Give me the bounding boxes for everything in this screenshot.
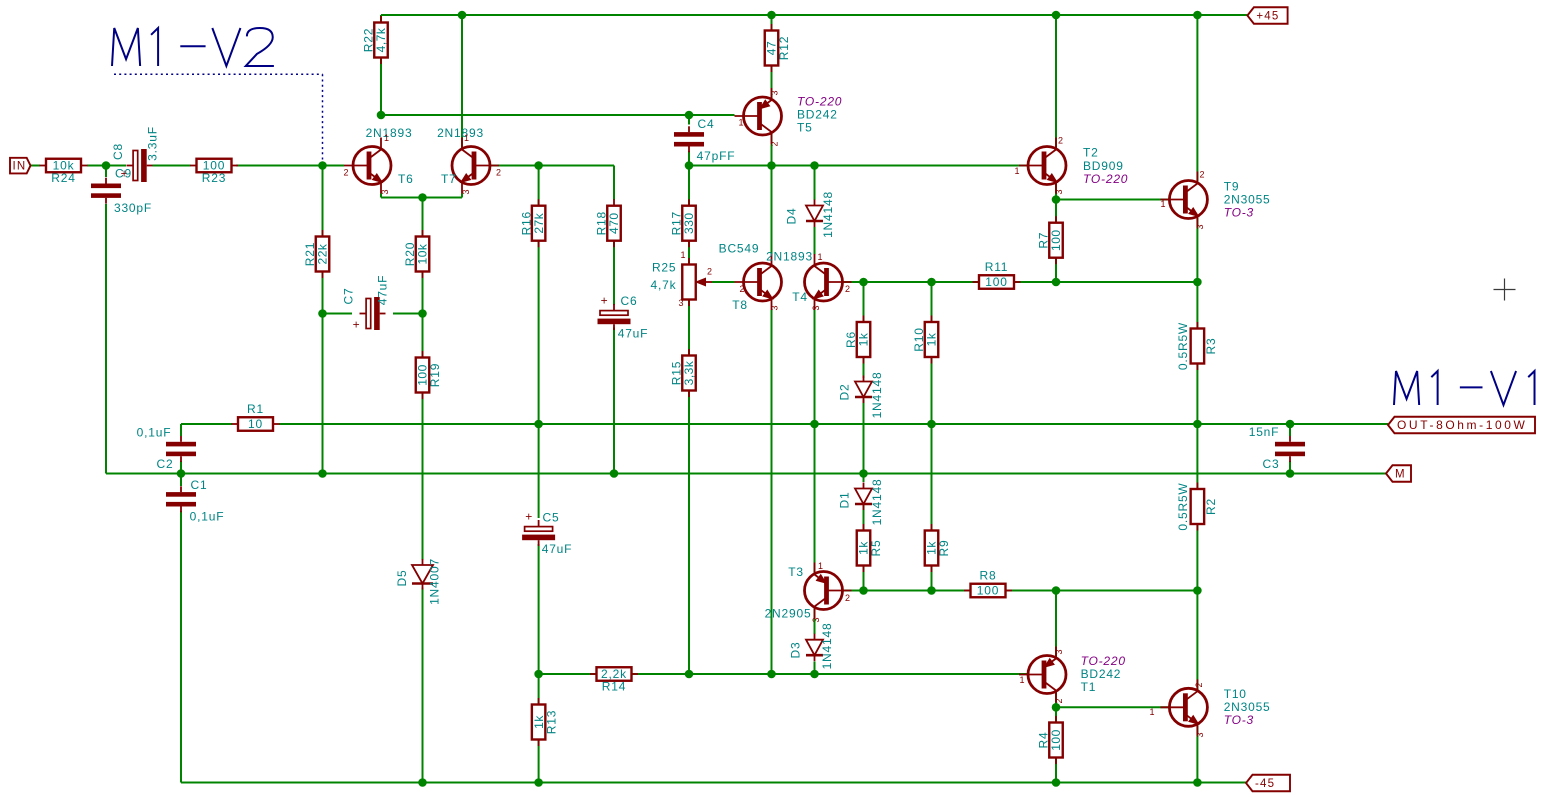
svg-text:1: 1 bbox=[738, 118, 743, 128]
svg-text:100: 100 bbox=[1049, 729, 1063, 751]
svg-text:3: 3 bbox=[380, 189, 390, 194]
svg-text:2: 2 bbox=[496, 168, 501, 178]
svg-text:BC549: BC549 bbox=[719, 242, 760, 256]
svg-text:+45: +45 bbox=[1256, 11, 1279, 23]
svg-text:0,1uF: 0,1uF bbox=[137, 426, 172, 440]
svg-text:22k: 22k bbox=[316, 243, 330, 264]
svg-text:47uF: 47uF bbox=[618, 327, 649, 341]
svg-text:C1: C1 bbox=[191, 478, 208, 492]
svg-text:R24: R24 bbox=[51, 171, 75, 185]
svg-text:R17: R17 bbox=[670, 211, 684, 235]
svg-text:47uF: 47uF bbox=[376, 275, 390, 306]
svg-text:0.5R5W: 0.5R5W bbox=[1176, 482, 1190, 530]
svg-text:2N2905: 2N2905 bbox=[765, 607, 812, 621]
svg-text:T5: T5 bbox=[797, 121, 813, 135]
svg-text:2: 2 bbox=[739, 284, 744, 294]
svg-text:+: + bbox=[353, 318, 361, 332]
svg-text:TO-220: TO-220 bbox=[797, 95, 842, 109]
svg-text:R25: R25 bbox=[652, 261, 676, 275]
svg-text:C8: C8 bbox=[111, 143, 125, 160]
svg-text:R10: R10 bbox=[912, 327, 926, 351]
svg-text:47uF: 47uF bbox=[542, 542, 573, 556]
svg-text:100: 100 bbox=[1049, 229, 1063, 251]
svg-text:BD242: BD242 bbox=[1081, 667, 1122, 681]
svg-text:4,7k: 4,7k bbox=[374, 27, 388, 52]
svg-text:TO-220: TO-220 bbox=[1081, 654, 1126, 668]
svg-text:T10: T10 bbox=[1224, 687, 1247, 701]
svg-text:C2: C2 bbox=[157, 457, 174, 471]
svg-text:C7: C7 bbox=[342, 288, 356, 305]
svg-text:1: 1 bbox=[464, 133, 469, 143]
svg-text:T7: T7 bbox=[441, 172, 457, 186]
svg-text:T4: T4 bbox=[792, 290, 808, 304]
svg-text:470: 470 bbox=[607, 212, 621, 234]
svg-text:R1: R1 bbox=[247, 402, 264, 416]
svg-text:2: 2 bbox=[1054, 698, 1064, 703]
svg-text:R14: R14 bbox=[602, 680, 626, 694]
svg-text:T2: T2 bbox=[1083, 146, 1099, 160]
svg-text:3,3k: 3,3k bbox=[682, 360, 696, 385]
svg-text:-45: -45 bbox=[1255, 778, 1275, 790]
svg-text:2: 2 bbox=[845, 284, 850, 294]
svg-text:1: 1 bbox=[384, 133, 389, 143]
svg-text:3: 3 bbox=[770, 305, 780, 310]
svg-text:R4: R4 bbox=[1037, 732, 1051, 749]
svg-text:1: 1 bbox=[1149, 707, 1154, 717]
svg-text:R18: R18 bbox=[595, 211, 609, 235]
svg-text:T9: T9 bbox=[1224, 180, 1240, 194]
svg-text:R20: R20 bbox=[403, 242, 417, 266]
svg-text:TO-3: TO-3 bbox=[1224, 713, 1254, 727]
svg-text:R15: R15 bbox=[670, 361, 684, 385]
svg-text:3: 3 bbox=[461, 189, 471, 194]
svg-text:1N4007: 1N4007 bbox=[428, 558, 442, 605]
svg-text:BD909: BD909 bbox=[1083, 159, 1124, 173]
svg-text:1N4148: 1N4148 bbox=[820, 623, 834, 670]
svg-text:R13: R13 bbox=[544, 710, 558, 734]
svg-text:R5: R5 bbox=[869, 540, 883, 557]
svg-text:T8: T8 bbox=[732, 298, 748, 312]
svg-text:C9: C9 bbox=[115, 167, 132, 181]
svg-text:2: 2 bbox=[845, 593, 850, 603]
svg-text:R22: R22 bbox=[362, 28, 376, 52]
svg-text:2: 2 bbox=[1199, 170, 1204, 180]
svg-text:1N4148: 1N4148 bbox=[821, 191, 835, 238]
svg-text:TO-3: TO-3 bbox=[1224, 206, 1254, 220]
svg-text:1: 1 bbox=[818, 561, 823, 571]
svg-text:3: 3 bbox=[1054, 189, 1064, 194]
svg-text:R6: R6 bbox=[844, 331, 858, 348]
svg-text:1: 1 bbox=[1014, 166, 1019, 176]
svg-text:R7: R7 bbox=[1037, 232, 1051, 249]
svg-text:2N1893: 2N1893 bbox=[766, 250, 813, 264]
svg-text:C3: C3 bbox=[1263, 457, 1280, 471]
svg-text:1N4148: 1N4148 bbox=[870, 372, 884, 419]
svg-text:27k: 27k bbox=[532, 212, 546, 233]
svg-text:OUT-8Ohm-100W: OUT-8Ohm-100W bbox=[1397, 418, 1528, 432]
svg-text:TO-220: TO-220 bbox=[1083, 172, 1128, 186]
svg-text:1k: 1k bbox=[925, 332, 939, 346]
svg-text:3.3uF: 3.3uF bbox=[146, 126, 160, 161]
svg-text:1: 1 bbox=[1019, 675, 1024, 685]
svg-text:T6: T6 bbox=[398, 172, 414, 186]
svg-text:+: + bbox=[601, 294, 609, 308]
svg-text:3: 3 bbox=[811, 305, 821, 310]
svg-text:100: 100 bbox=[977, 584, 999, 598]
svg-text:3: 3 bbox=[770, 90, 780, 95]
svg-text:2: 2 bbox=[707, 267, 712, 277]
svg-text:1k: 1k bbox=[857, 332, 871, 346]
svg-text:D1: D1 bbox=[838, 492, 852, 509]
svg-text:R16: R16 bbox=[519, 211, 533, 235]
svg-text:D3: D3 bbox=[789, 642, 803, 659]
svg-text:2N3055: 2N3055 bbox=[1224, 700, 1271, 714]
svg-text:R8: R8 bbox=[980, 569, 997, 583]
svg-text:330: 330 bbox=[682, 212, 696, 234]
svg-text:R3: R3 bbox=[1204, 338, 1218, 355]
svg-text:47pFF: 47pFF bbox=[697, 149, 736, 163]
svg-text:BD242: BD242 bbox=[797, 108, 838, 122]
svg-text:10k: 10k bbox=[416, 243, 430, 264]
svg-text:2: 2 bbox=[1194, 682, 1204, 687]
svg-text:C4: C4 bbox=[698, 117, 715, 131]
svg-text:3: 3 bbox=[678, 298, 683, 308]
svg-text:2: 2 bbox=[770, 141, 780, 146]
svg-text:M: M bbox=[1395, 469, 1406, 481]
svg-text:2N3055: 2N3055 bbox=[1224, 193, 1271, 207]
svg-text:1: 1 bbox=[817, 252, 822, 262]
svg-text:IN: IN bbox=[13, 161, 27, 173]
svg-text:10: 10 bbox=[248, 417, 263, 431]
svg-text:0,1uF: 0,1uF bbox=[190, 510, 225, 524]
svg-text:3: 3 bbox=[1054, 649, 1064, 654]
svg-text:R23: R23 bbox=[202, 171, 226, 185]
svg-text:2N1893: 2N1893 bbox=[437, 126, 484, 140]
svg-text:1: 1 bbox=[1160, 199, 1165, 209]
svg-text:15nF: 15nF bbox=[1249, 425, 1280, 439]
svg-text:R11: R11 bbox=[985, 260, 1009, 274]
svg-text:C5: C5 bbox=[543, 511, 560, 525]
svg-text:T1: T1 bbox=[1081, 680, 1097, 694]
svg-text:100: 100 bbox=[985, 275, 1007, 289]
svg-text:D5: D5 bbox=[395, 570, 409, 587]
svg-text:4,7k: 4,7k bbox=[651, 278, 677, 292]
svg-text:T3: T3 bbox=[788, 565, 804, 579]
svg-text:1N4148: 1N4148 bbox=[870, 479, 884, 526]
svg-text:2: 2 bbox=[1058, 136, 1063, 146]
svg-text:3: 3 bbox=[1195, 224, 1205, 229]
svg-text:R21: R21 bbox=[303, 242, 317, 266]
svg-text:R2: R2 bbox=[1204, 498, 1218, 515]
svg-text:D4: D4 bbox=[785, 208, 799, 225]
svg-text:3: 3 bbox=[1195, 732, 1205, 737]
svg-text:R9: R9 bbox=[937, 540, 951, 557]
svg-text:+: + bbox=[525, 510, 533, 524]
svg-text:C6: C6 bbox=[621, 294, 638, 308]
svg-text:R12: R12 bbox=[777, 36, 791, 60]
svg-text:0.5R5W: 0.5R5W bbox=[1176, 322, 1190, 370]
svg-text:1: 1 bbox=[680, 250, 685, 260]
svg-text:3: 3 bbox=[811, 617, 821, 622]
svg-text:D2: D2 bbox=[838, 384, 852, 401]
svg-text:330pF: 330pF bbox=[114, 201, 152, 215]
svg-text:R19: R19 bbox=[428, 363, 442, 387]
svg-text:2: 2 bbox=[343, 168, 348, 178]
